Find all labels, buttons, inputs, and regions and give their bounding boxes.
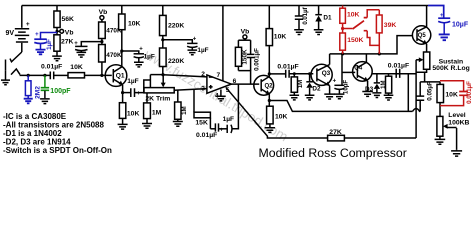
svg-text:D1: D1 (323, 14, 332, 21)
wire: fb top (238, 39, 250, 41)
resistor 2M2 (blue) (24, 75, 33, 103)
ground (level pot) (435, 136, 446, 144)
svg-text:0.01µF: 0.01µF (388, 63, 409, 70)
svg-text:-Switch is a SPDT On-Off-On: -Switch is a SPDT On-Off-On (3, 146, 112, 155)
resistor 15K (194, 89, 210, 128)
capacitor 1uF (sidechain series) (219, 84, 239, 133)
transistor Q2 (254, 74, 274, 106)
svg-text:D2: D2 (312, 86, 321, 93)
notes (3, 112, 112, 155)
resistor 10K (red) (342, 6, 344, 9)
wire: top V+ rail (22, 5, 428, 7)
svg-text:10K: 10K (127, 110, 140, 117)
svg-text:100KB: 100KB (448, 119, 469, 126)
svg-text:Level: Level (448, 112, 465, 119)
svg-text:10K: 10K (347, 12, 360, 19)
resistor 1M (rectifier bias) (290, 74, 304, 100)
wire: pin 7 to rail (222, 6, 224, 81)
potentiometer Sustain 500K (416, 52, 470, 72)
capacitor 100pF (green) (40, 75, 71, 103)
resistor 27K (54, 35, 74, 51)
wire: fb bottom (238, 71, 250, 85)
capacitor 1uF (Q1 base bypass) (74, 41, 102, 57)
transistor Q4 (353, 54, 373, 97)
svg-text:Q3: Q3 (322, 70, 331, 77)
battery 9V (6, 6, 30, 53)
wire: Q4 side network (372, 73, 416, 75)
svg-text:56K: 56K (62, 16, 75, 23)
capacitor 0.01uF (sidechain series) (196, 123, 219, 138)
capacitor 0.01uF (to sustain) (388, 63, 409, 78)
resistor 470K (lower) (99, 45, 122, 76)
svg-text:Modified Ross Compressor: Modified Ross Compressor (259, 146, 407, 160)
svg-text:10K: 10K (70, 64, 83, 71)
node Vb (terminal) (56, 29, 74, 36)
diode D3 (365, 74, 381, 98)
svg-text:Vb: Vb (65, 29, 74, 36)
wire to Q1 base (85, 74, 112, 76)
svg-text:1M: 1M (181, 106, 188, 115)
capacitor 1uF (220K junction bypass) (163, 36, 209, 55)
capacitor 0.001uF (red, parallel 10K) (440, 81, 468, 106)
node: 470K bias join (100, 74, 103, 77)
node: 220K midpoint (161, 38, 164, 41)
capacitor 0.01uF (supply filter) (294, 6, 309, 35)
svg-text:470K: 470K (106, 52, 122, 59)
node: Q1 collector junction (120, 49, 123, 52)
svg-text:+: + (220, 127, 224, 133)
svg-text:+: + (440, 13, 444, 19)
op-amp U1 CA3080E (201, 71, 236, 99)
capacitor 1uF (Q1 emitter coupling) (123, 78, 151, 97)
resistor 10K (Q1 emitter) (118, 103, 140, 129)
wire: sidechain rail to Q5 (330, 36, 413, 54)
svg-text:220K: 220K (168, 58, 184, 65)
wire: sustain bottom node (416, 69, 427, 72)
svg-text:27K: 27K (61, 39, 74, 46)
svg-text:1µF: 1µF (144, 54, 155, 61)
capacitor 0.01uF (sidechain drive) (269, 64, 313, 78)
svg-text:0.001µF: 0.001µF (466, 81, 473, 104)
svg-text:220K: 220K (168, 22, 184, 29)
wire (54, 74, 68, 76)
node: Q2 collector / sidechain tap (268, 72, 271, 75)
resistor 150K (feedback) (235, 40, 248, 70)
transistor Q5 (412, 6, 430, 53)
svg-text:0.01µf: 0.01µf (303, 6, 309, 24)
ground (27K) (52, 51, 62, 61)
capacitor 0.05uF (416, 81, 433, 111)
node: D2 tap (308, 72, 311, 75)
svg-text:10K: 10K (275, 114, 288, 121)
node: 39K bottom (378, 52, 381, 55)
wire: blue rail to 10uF (428, 6, 444, 18)
svg-text:0.01µF: 0.01µF (41, 64, 62, 71)
svg-text:1µF: 1µF (197, 47, 208, 54)
resistor 10K (Q2 emitter) (265, 106, 288, 132)
node Vb (feedback reference terminal) (241, 28, 250, 40)
resistor 220K (upper) (160, 6, 185, 49)
capacitor 0.01uF (input) (41, 64, 62, 80)
watermark (141, 46, 290, 144)
svg-text:+: + (193, 36, 197, 42)
resistor 1M (pin3 to ground) (173, 90, 188, 126)
svg-text:39K: 39K (384, 22, 397, 29)
wire: input signal (20, 74, 50, 76)
svg-text:1µF: 1µF (223, 116, 235, 123)
diode D2 (305, 74, 321, 100)
resistor 1M (D3 side) (381, 74, 393, 100)
capacitor 0.001uF (feedback) (247, 40, 261, 71)
transistor Q1 (105, 65, 127, 103)
svg-text:Q4: Q4 (354, 66, 363, 72)
svg-text:+: + (35, 32, 39, 38)
output jack (451, 128, 462, 156)
resistor 1M (trim left leg) (142, 93, 162, 128)
node: 2M2 tap (27, 74, 30, 77)
wire: output coupling drop to output bus (407, 74, 409, 112)
diode D1 (polarity protection) (314, 6, 332, 35)
svg-text:500K R.Log: 500K R.Log (432, 65, 469, 72)
red mod network (340, 6, 382, 54)
node: Q2 emitter output tap (268, 99, 271, 102)
resistor 220K (lower) (160, 48, 185, 75)
svg-text:+: + (74, 41, 78, 47)
svg-text:10µF: 10µF (452, 22, 469, 29)
node: 150K bottom (341, 52, 344, 55)
svg-text:1M: 1M (152, 110, 162, 117)
svg-text:7: 7 (217, 72, 221, 79)
svg-text:27K: 27K (329, 129, 342, 136)
svg-text:+: + (26, 21, 30, 28)
svg-text:0.01µF: 0.01µF (277, 64, 298, 71)
capacitor 1uF (Vb bypass, blue) (34, 33, 57, 55)
svg-text:10K: 10K (445, 92, 458, 99)
svg-text:0.01µF: 0.01µF (196, 132, 217, 139)
capacitor 10uF (sidechain, electrolytic) (333, 54, 350, 99)
wire: op-amp output to Q2 base (231, 83, 259, 85)
node: Q1 emitter tap (121, 91, 124, 94)
resistor 10K (Q1 collector load) (119, 6, 141, 67)
wire: Q4 base (342, 71, 355, 73)
svg-text:10K: 10K (128, 20, 141, 27)
wire: 27K up to sustain wiper (crosses output wire with hop) (415, 60, 417, 138)
resistor 39K (red) (378, 10, 380, 15)
transistor Q3 (311, 54, 335, 99)
resistor 27K (pin5 feed) (328, 129, 345, 141)
svg-text:Q1: Q1 (116, 72, 125, 79)
resistor 470K (upper) (99, 22, 122, 45)
svg-text:D3: D3 (365, 86, 374, 93)
svg-text:Q5: Q5 (418, 33, 427, 39)
svg-text:1µF: 1µF (127, 78, 139, 85)
svg-text:2M2: 2M2 (34, 86, 41, 99)
svg-text:0.001µF: 0.001µF (254, 48, 261, 71)
svg-text:2: 2 (201, 71, 205, 78)
node: 1M tap (293, 72, 296, 75)
resistor 10K (Q2 collector load) (266, 6, 286, 74)
svg-text:+: + (139, 47, 143, 53)
ground (input jack) (1, 70, 10, 85)
svg-text:1µF: 1µF (46, 39, 53, 50)
wire hop over sustain line (413, 109, 421, 112)
svg-text:100pF: 100pF (50, 88, 71, 95)
node: 470K midpoint (100, 40, 103, 43)
wire: output line (Q2 emitter to right) (269, 101, 412, 112)
trimpot 2K Trim (144, 73, 174, 102)
svg-text:15K: 15K (195, 120, 208, 127)
resistor 150K (red) (342, 23, 344, 33)
svg-text:150K: 150K (347, 37, 363, 44)
switch SPDT (red) (343, 28, 353, 30)
ground (pin 4) (216, 90, 226, 101)
svg-text:Q2: Q2 (265, 84, 274, 90)
svg-text:2K Trim: 2K Trim (145, 95, 170, 102)
wire: pin3 line (174, 89, 207, 91)
svg-text:9V: 9V (6, 30, 15, 37)
svg-text:+: + (333, 78, 337, 84)
wire: pin 5 to sidechain (long diagonal) (226, 87, 328, 138)
wire: battery to jack switch diagonal (10, 52, 22, 62)
potentiometer Level 100KB (437, 112, 470, 136)
svg-text:10µF: 10µF (342, 80, 349, 94)
capacitor 10uF (supply, blue) (438, 18, 450, 40)
svg-text:1M: 1M (298, 80, 304, 88)
svg-text:0.05µF: 0.05µF (427, 81, 434, 101)
capacitor 1uF (Q1 collector bypass) (122, 47, 155, 67)
resistor 56K (54, 6, 74, 35)
wire: pin2 line (163, 75, 207, 77)
input jack (6, 60, 21, 75)
resistor 10K (level feed) (437, 82, 458, 117)
svg-text:1M: 1M (381, 81, 387, 89)
node: 100pF tap (43, 74, 46, 77)
resistor 10K (input series) (68, 64, 85, 78)
node Vb (470K chain terminal) (99, 9, 108, 22)
svg-text:10K: 10K (274, 34, 287, 41)
